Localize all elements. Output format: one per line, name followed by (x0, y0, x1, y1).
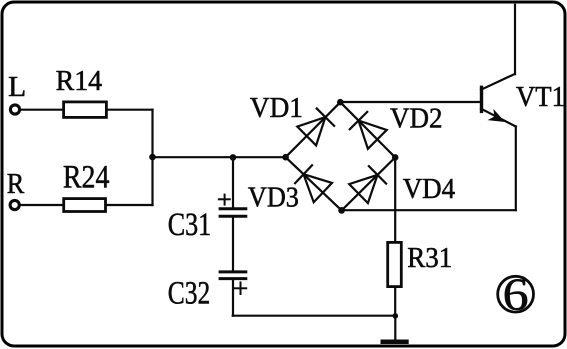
svg-text:VT1: VT1 (516, 82, 565, 113)
svg-text:R24: R24 (63, 160, 110, 196)
svg-text:VD2: VD2 (390, 103, 443, 135)
svg-text:VD4: VD4 (403, 173, 456, 205)
svg-text:R14: R14 (56, 66, 103, 97)
svg-text:C31: C31 (168, 207, 212, 243)
svg-text:L: L (8, 72, 26, 103)
svg-text:VD3: VD3 (248, 181, 299, 213)
svg-text:R31: R31 (407, 242, 452, 274)
svg-text:VD1: VD1 (250, 92, 303, 124)
svg-text:R: R (7, 168, 25, 200)
svg-text:C32: C32 (168, 276, 211, 312)
svg-text:6: 6 (503, 269, 529, 320)
